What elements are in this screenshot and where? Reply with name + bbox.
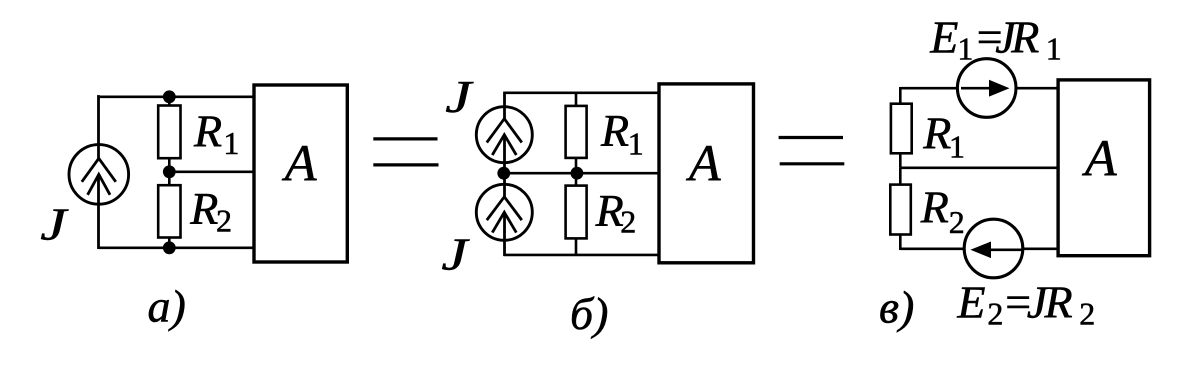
svg-text:E: E [929,12,958,63]
svg-text:R: R [600,105,629,156]
svg-text:E: E [956,277,985,328]
svg-text:1: 1 [949,129,965,165]
svg-text:R: R [920,182,949,233]
svg-text:в): в) [879,281,914,332]
svg-text:A: A [282,136,317,193]
svg-text:A: A [1082,130,1117,187]
svg-text:R: R [193,106,222,157]
svg-text:R: R [922,107,951,158]
svg-text:2: 2 [1079,295,1095,331]
svg-text:R: R [1010,12,1039,63]
svg-text:1: 1 [223,125,239,161]
svg-text:1: 1 [628,125,644,161]
svg-text:1: 1 [957,31,973,67]
svg-text:2: 2 [949,204,965,240]
svg-text:J: J [441,229,470,280]
svg-text:1: 1 [1046,31,1062,67]
svg-text:а): а) [148,281,186,332]
svg-text:J: J [40,199,69,250]
svg-text:A: A [686,136,721,193]
svg-text:2: 2 [216,203,232,239]
svg-text:2: 2 [987,295,1003,331]
svg-text:б): б) [570,288,608,339]
svg-text:R: R [189,183,218,234]
svg-text:J: J [445,72,474,123]
svg-text:R: R [1044,277,1073,328]
svg-text:2: 2 [620,204,636,240]
